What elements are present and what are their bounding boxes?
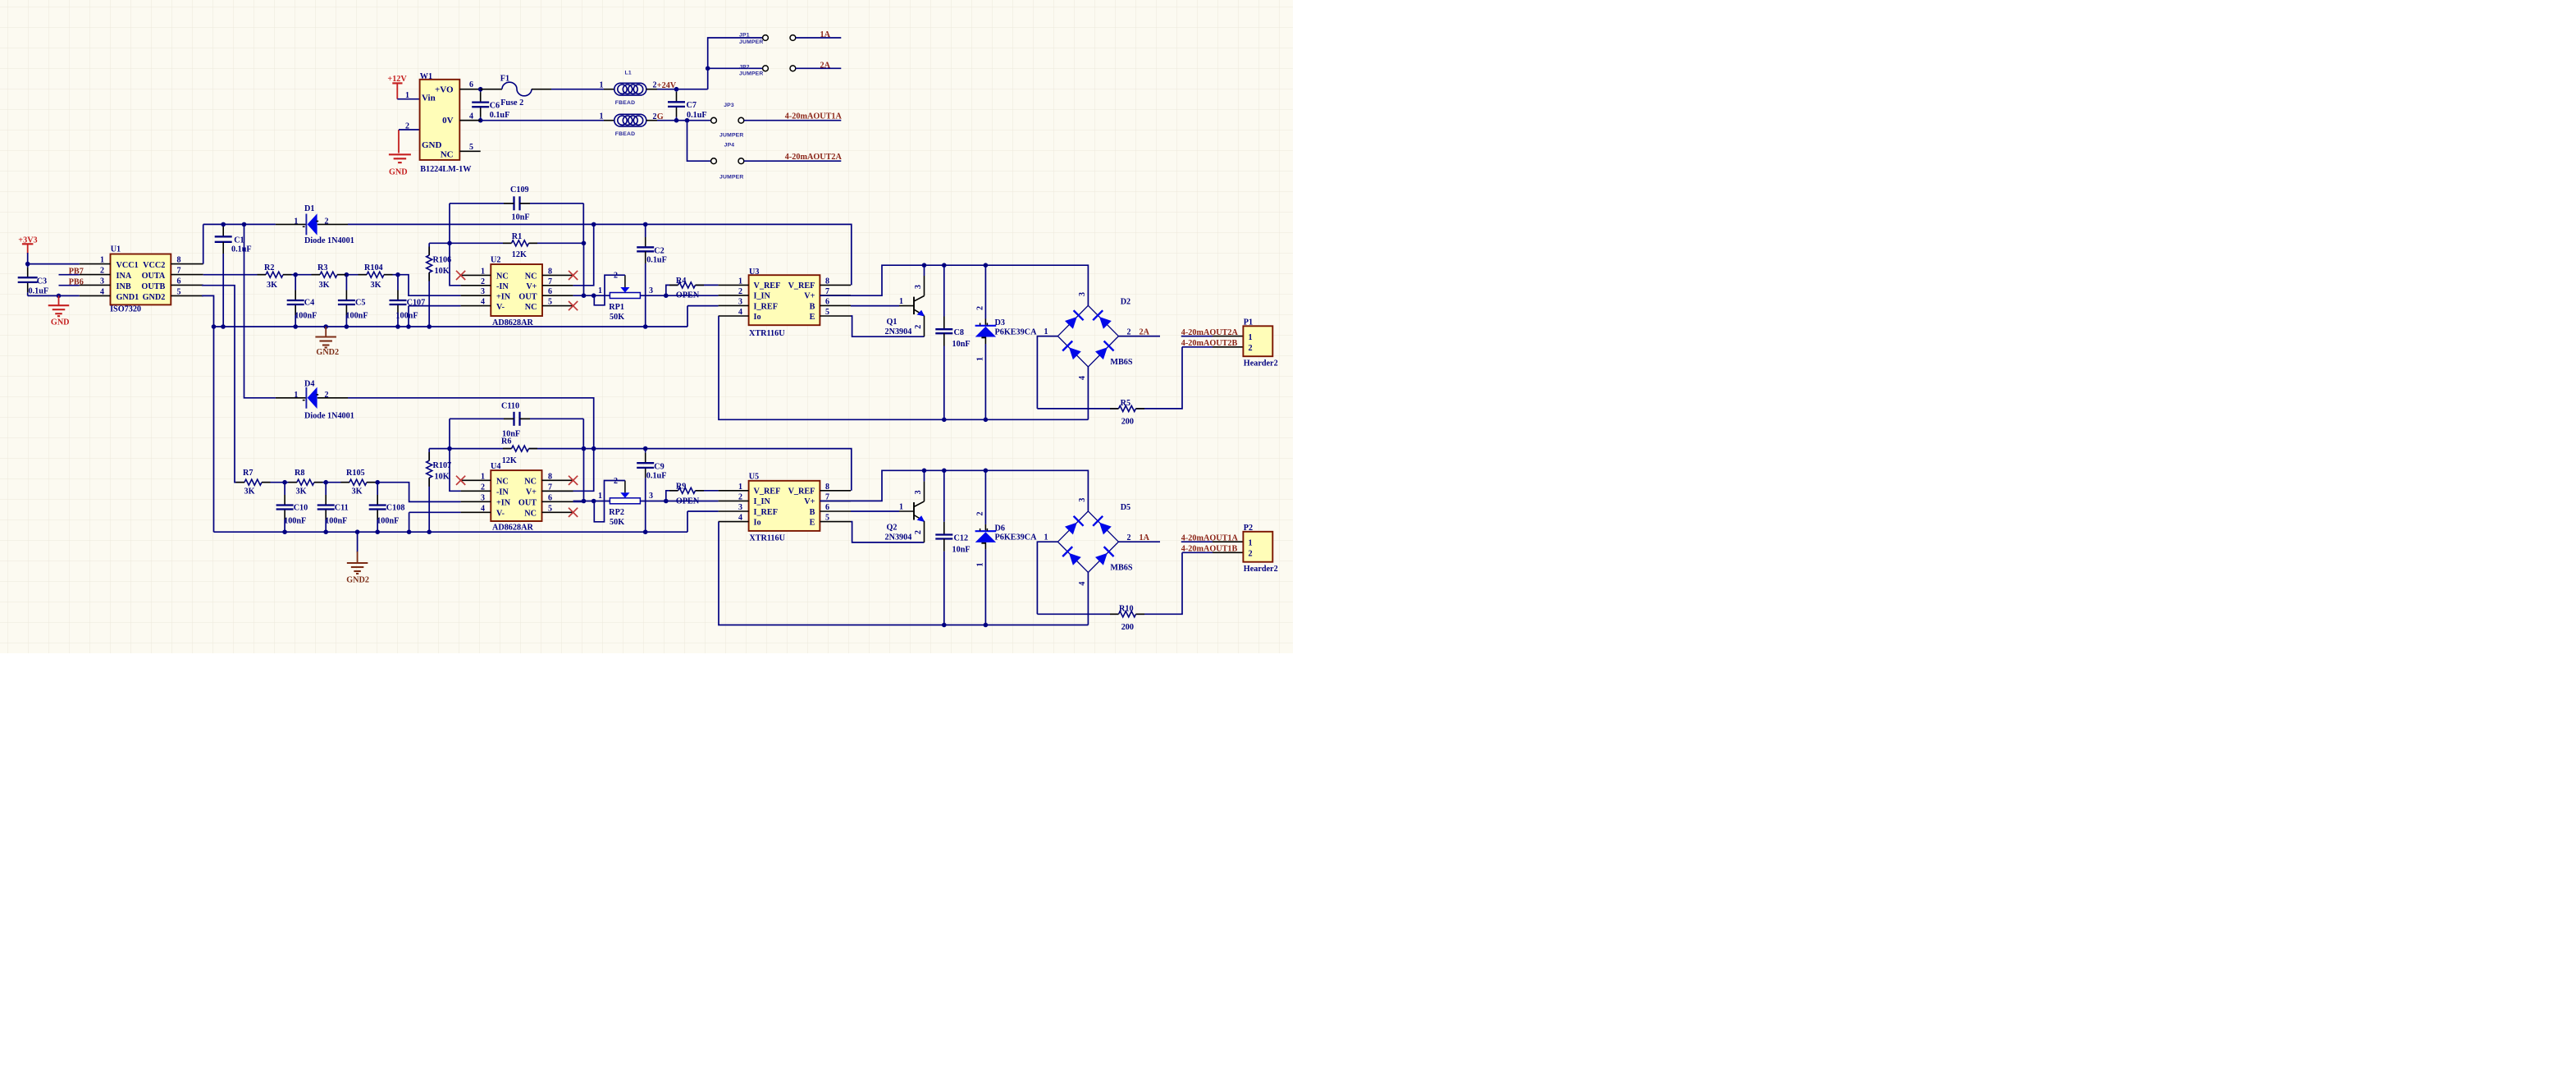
junction C12 [942, 623, 947, 628]
svg-text:10nF: 10nF [952, 340, 971, 349]
junction D6 [984, 469, 989, 474]
svg-text:C5: C5 [355, 298, 365, 307]
svg-text:1: 1 [598, 492, 602, 501]
svg-text:2: 2 [325, 217, 329, 226]
junction C1 [221, 222, 226, 227]
svg-text:V_REF: V_REF [754, 281, 781, 291]
svg-text:1: 1 [294, 217, 298, 226]
svg-text:OUT: OUT [518, 499, 537, 508]
svg-text:4-20mAOUT1B: 4-20mAOUT1B [1181, 544, 1238, 553]
current transmitter U3 XTR116U body [749, 275, 820, 325]
resistor pin leads (black) [258, 274, 267, 276]
junction C108 [375, 480, 380, 485]
svg-text:0V: 0V [442, 116, 454, 126]
svg-text:F1: F1 [500, 74, 509, 83]
U2 pin leads and numbers [461, 274, 491, 276]
svg-text:8: 8 [825, 277, 829, 286]
resistor R8 [297, 479, 314, 485]
svg-text:NC: NC [496, 478, 509, 487]
capacitor C109 10nF [450, 203, 514, 204]
svg-text:P1: P1 [1244, 318, 1253, 327]
potentiometer RP1 50K [610, 293, 640, 299]
svg-text:VCC1: VCC1 [116, 261, 139, 270]
wire OUTB to R7 [202, 286, 244, 483]
bridge rectifier D5 MB6S [1057, 511, 1118, 573]
svg-text:3: 3 [1078, 292, 1087, 296]
svg-text:GND2: GND2 [316, 348, 339, 357]
junction R6 [447, 446, 452, 451]
svg-text:0.1uF: 0.1uF [646, 472, 667, 481]
svg-text:C108: C108 [386, 504, 405, 513]
svg-text:4: 4 [481, 298, 485, 307]
svg-text:GND1: GND1 [116, 293, 139, 302]
svg-text:2: 2 [481, 483, 485, 492]
resistor R107 10K [428, 449, 430, 461]
junction C107 [395, 272, 400, 277]
svg-text:NC: NC [496, 272, 509, 281]
svg-text:100nF: 100nF [295, 312, 317, 321]
wire 4-20mAOUT2A to P1 [1181, 336, 1213, 337]
Q2 emitter pin [924, 521, 925, 542]
svg-text:Hearder2: Hearder2 [1244, 565, 1278, 574]
svg-text:50K: 50K [610, 313, 624, 322]
W1 pin 4 lead [459, 120, 480, 121]
svg-text:3K: 3K [352, 487, 363, 497]
Q1 collector pin [924, 276, 925, 296]
svg-text:I_IN: I_IN [754, 292, 771, 301]
junction [478, 87, 483, 92]
junction C8 [942, 418, 947, 423]
svg-text:R6: R6 [501, 437, 511, 446]
svg-text:D6: D6 [995, 524, 1005, 533]
svg-text:7: 7 [177, 267, 181, 276]
svg-text:3: 3 [738, 297, 742, 306]
svg-text:4-20mAOUT2B: 4-20mAOUT2B [1181, 339, 1238, 348]
junction D3 [984, 418, 989, 423]
svg-text:4-20mAOUT2A: 4-20mAOUT2A [785, 153, 843, 162]
svg-text:5: 5 [825, 308, 829, 317]
jumper JP1 pin 2 [790, 35, 796, 41]
svg-text:GND2: GND2 [346, 576, 369, 585]
svg-text:FBEAD: FBEAD [615, 131, 635, 137]
junction [643, 324, 648, 329]
svg-text:U5: U5 [749, 473, 759, 482]
junction [323, 529, 328, 534]
svg-text:Io: Io [754, 518, 761, 527]
svg-text:D5: D5 [1121, 503, 1130, 512]
svg-text:10nF: 10nF [952, 545, 971, 554]
svg-text:U2: U2 [491, 256, 500, 265]
svg-text:8: 8 [825, 483, 829, 492]
capacitor C107 100nF [397, 275, 399, 291]
wire net 1A [796, 37, 842, 39]
svg-text:B: B [810, 508, 815, 517]
svg-text:C4: C4 [304, 298, 314, 307]
svg-text:INB: INB [116, 282, 131, 291]
svg-text:6: 6 [548, 287, 552, 296]
svg-text:Fuse 2: Fuse 2 [500, 98, 523, 108]
svg-text:Q2: Q2 [887, 524, 897, 533]
wire 4-20mAOUT2B to P1 [1182, 346, 1213, 348]
junction C11 [323, 480, 328, 485]
junction C9 [643, 446, 648, 451]
jumper JP3 pin 1 [711, 117, 717, 123]
jumper JP2 pin 1 [763, 66, 769, 71]
svg-text:-IN: -IN [496, 488, 509, 497]
svg-text:+IN: +IN [496, 293, 511, 302]
capacitor C11 100nF [325, 483, 327, 495]
resistor R4 OPEN wire [666, 285, 678, 295]
svg-text:D3: D3 [995, 318, 1005, 327]
svg-text:E: E [810, 518, 815, 527]
junction [674, 118, 679, 123]
wire 0V to bead [481, 120, 604, 121]
junction Q1 collector [922, 263, 927, 268]
svg-text:XTR116U: XTR116U [749, 534, 785, 543]
svg-text:V_REF: V_REF [754, 487, 781, 497]
wire +24V1 to U4 V+ [348, 398, 594, 492]
wire +24V up to JP1 [708, 38, 763, 89]
inductor L1 FBEAD [614, 83, 646, 95]
transistor Q1 2N3904 [913, 297, 915, 315]
svg-text:100nF: 100nF [325, 517, 347, 526]
svg-text:NC: NC [524, 510, 537, 519]
svg-text:7: 7 [548, 483, 552, 492]
svg-text:AD8628AR: AD8628AR [492, 318, 533, 327]
resistor R105 [349, 479, 367, 485]
capacitor C1 0.1uF [222, 224, 224, 227]
svg-text:Hearder2: Hearder2 [1244, 359, 1278, 368]
wire I_REF to GND2 rail [687, 305, 719, 307]
svg-text:V-: V- [496, 303, 505, 312]
svg-text:2A: 2A [1140, 327, 1150, 336]
svg-text:JP2: JP2 [739, 64, 750, 70]
svg-text:D4: D4 [304, 380, 314, 389]
svg-text:8: 8 [177, 256, 181, 265]
svg-text:V+: V+ [804, 497, 815, 506]
svg-text:1: 1 [600, 80, 604, 89]
Q1 emitter pin [924, 316, 925, 337]
svg-text:+VO: +VO [435, 85, 454, 95]
no-connect U4 pin 8 [569, 476, 578, 485]
capacitor C12 10nF [943, 470, 945, 522]
wire RP1 wiper loop [594, 275, 625, 305]
capacitor C7 0.1uF [676, 89, 678, 92]
svg-text:4: 4 [469, 112, 473, 121]
svg-text:NC: NC [525, 272, 537, 281]
svg-text:3: 3 [481, 493, 485, 502]
wire +24V2 rail to U3 V_REF [348, 224, 852, 285]
svg-text:R8: R8 [295, 469, 304, 478]
resistor R2 [266, 272, 283, 277]
ground GND (input side) [389, 153, 411, 155]
junction [582, 446, 587, 451]
svg-text:JP3: JP3 [724, 103, 734, 108]
svg-text:+IN: +IN [496, 499, 511, 508]
svg-text:1: 1 [294, 391, 298, 400]
junction C12 [942, 469, 947, 474]
resistor R104 [367, 272, 384, 277]
wire 4-20mAOUT1B to P2 [1182, 552, 1213, 553]
junction C2 [643, 222, 648, 227]
svg-text:JP4: JP4 [724, 142, 735, 148]
Q1 base pin [899, 305, 914, 307]
svg-text:2: 2 [1249, 550, 1253, 559]
wire net 4-20mAOUT2A [744, 160, 842, 162]
U3 pin leads and numbers [719, 284, 749, 286]
junction wiper [591, 293, 596, 298]
svg-text:4: 4 [1078, 376, 1087, 380]
svg-text:3: 3 [649, 492, 653, 501]
P1 pin 2 lead [1213, 346, 1243, 348]
svg-text:RP2: RP2 [609, 508, 624, 517]
svg-text:3: 3 [738, 503, 742, 512]
svg-text:C7: C7 [687, 101, 697, 110]
svg-text:4: 4 [738, 514, 742, 523]
svg-text:1: 1 [1249, 539, 1253, 548]
resistor R3 [320, 272, 337, 277]
wire net 2A [796, 67, 842, 69]
svg-text:3: 3 [914, 490, 923, 494]
junction Q2 collector [922, 469, 927, 474]
svg-text:R7: R7 [243, 469, 253, 478]
svg-text:1: 1 [598, 286, 602, 295]
no-connect U2 pin 8 [569, 271, 578, 280]
wire fuse to L1 [551, 89, 604, 90]
wire V+ to loop supply rail lower [820, 470, 1088, 510]
svg-text:1: 1 [976, 357, 985, 361]
junction [427, 324, 432, 329]
svg-text:200: 200 [1121, 418, 1134, 427]
svg-text:1: 1 [405, 91, 409, 100]
svg-text:V-: V- [496, 510, 505, 519]
junction [674, 87, 679, 92]
svg-text:Q1: Q1 [887, 318, 897, 327]
svg-text:JUMPER: JUMPER [719, 132, 744, 138]
jumper JP3 pin 2 [738, 117, 744, 123]
junction [212, 324, 217, 329]
P2 pin 1 lead [1213, 541, 1243, 542]
wire V- to GND2 rail [408, 306, 409, 327]
svg-text:V+: V+ [526, 488, 537, 497]
svg-text:V+: V+ [804, 292, 815, 301]
wire RP2 wiper loop [594, 481, 625, 522]
wire Io return rail [719, 316, 1088, 419]
junction [282, 529, 287, 534]
junction R1 [447, 241, 452, 246]
W1 pin 5 lead (NC) [459, 150, 480, 152]
Q2 collector pin [924, 481, 925, 501]
svg-text:P6KE39CA: P6KE39CA [995, 327, 1038, 336]
svg-text:2: 2 [976, 512, 985, 516]
svg-text:2: 2 [653, 112, 657, 121]
capacitor C5 100nF [345, 275, 347, 291]
svg-text:3K: 3K [371, 281, 381, 290]
current transmitter U5 XTR116U body [749, 481, 820, 531]
junction R9 [664, 499, 669, 504]
D4 pin 2 lead [317, 397, 348, 399]
svg-text:3: 3 [481, 287, 485, 296]
wire VCC2 to D4 [244, 224, 276, 397]
svg-text:W1: W1 [420, 72, 432, 81]
svg-text:1: 1 [738, 483, 742, 492]
svg-text:1: 1 [899, 297, 903, 306]
U1 pin leads and numbers [80, 263, 111, 265]
TVS diode D6 P6KE39CA [984, 470, 986, 524]
svg-text:Diode 1N4001: Diode 1N4001 [304, 236, 354, 245]
svg-text:R3: R3 [317, 263, 327, 272]
wire to U3 I_IN [640, 295, 718, 296]
svg-text:JUMPER: JUMPER [719, 175, 744, 181]
svg-text:OUTA: OUTA [142, 272, 166, 281]
wire to U5 I_IN [640, 501, 718, 502]
junction [221, 324, 226, 329]
junction C10 [282, 480, 287, 485]
svg-text:MB6S: MB6S [1110, 358, 1133, 367]
wire to JP2 [708, 67, 763, 69]
wire Io return rail lower [719, 522, 1088, 625]
svg-text:4-20mAOUT1A: 4-20mAOUT1A [1181, 534, 1239, 543]
wire OUT to RP2 [573, 501, 610, 502]
svg-text:P6KE39CA: P6KE39CA [995, 533, 1038, 542]
wire C110 to -IN [450, 419, 461, 491]
svg-text:10K: 10K [435, 267, 450, 276]
svg-text:2A: 2A [820, 61, 831, 70]
svg-text:1: 1 [738, 277, 742, 286]
wire R106 top [429, 242, 450, 244]
wire OUT [573, 501, 584, 502]
P2 pin 2 lead [1213, 552, 1243, 553]
wire top rail to D1 [203, 223, 276, 225]
svg-text:7: 7 [548, 277, 552, 286]
svg-text:INA: INA [116, 272, 132, 281]
jumper JP4 pin 1 [711, 158, 717, 164]
wire B to Q2 base [851, 510, 899, 512]
svg-text:1: 1 [100, 256, 104, 265]
resistor R9 OPEN wire [666, 491, 678, 501]
svg-text:0.1uF: 0.1uF [231, 245, 252, 254]
junction C5 [345, 272, 349, 277]
wire +3V3 [27, 253, 29, 264]
svg-text:C12: C12 [954, 533, 969, 542]
svg-text:2: 2 [481, 277, 485, 286]
resistor R7 [244, 479, 262, 485]
junction [582, 293, 587, 298]
svg-text:I_REF: I_REF [754, 508, 778, 517]
svg-text:2: 2 [1127, 327, 1131, 336]
svg-text:1: 1 [1044, 533, 1048, 542]
svg-text:2: 2 [405, 122, 409, 131]
wire VCC2 riser [203, 224, 204, 263]
svg-text:0.1uF: 0.1uF [646, 256, 667, 265]
wire U4 V- stub [409, 511, 461, 513]
wire E to Q2 emitter [851, 522, 925, 542]
wire GND2 rail [214, 326, 688, 327]
svg-text:200: 200 [1121, 623, 1134, 632]
wire GND2 rail lower [214, 531, 688, 533]
wire C109 right drop [582, 204, 584, 243]
junction [427, 529, 432, 534]
svg-text:XTR116U: XTR116U [749, 329, 785, 338]
svg-text:AD8628AR: AD8628AR [492, 524, 533, 533]
wire feedback to OUT [583, 243, 585, 295]
svg-text:R1: R1 [512, 232, 522, 241]
wire PB7 [59, 274, 80, 276]
svg-text:5: 5 [825, 514, 829, 523]
svg-text:100nF: 100nF [395, 312, 418, 321]
wire V+ to +24V2 rail [573, 224, 594, 285]
svg-text:V_REF: V_REF [788, 487, 815, 497]
junction [407, 529, 412, 534]
svg-text:0.1uF: 0.1uF [29, 287, 49, 296]
no-connect U4 pin 1 [456, 476, 465, 485]
capacitor C3 0.1uF [27, 264, 29, 268]
junction C8 [942, 263, 947, 268]
D4 pin 1 lead [276, 397, 306, 399]
op-amp U2 AD8628AR body [491, 264, 542, 316]
svg-text:P2: P2 [1244, 524, 1253, 533]
wire to JP4 [687, 121, 711, 162]
junction [375, 529, 380, 534]
junction [395, 324, 400, 329]
svg-text:L1: L1 [625, 71, 632, 76]
svg-text:V_REF: V_REF [788, 281, 815, 291]
svg-text:R2: R2 [264, 263, 274, 272]
svg-text:1: 1 [1044, 327, 1048, 336]
svg-text:1A: 1A [1140, 533, 1150, 542]
svg-text:C2: C2 [654, 247, 664, 256]
svg-text:C109: C109 [510, 185, 529, 195]
junction JP2 tap [706, 66, 710, 71]
svg-text:4: 4 [1078, 582, 1087, 586]
wire U1 GND2 drop [202, 295, 214, 532]
svg-text:8: 8 [548, 267, 552, 276]
svg-text:1: 1 [899, 502, 903, 511]
svg-text:JUMPER: JUMPER [739, 39, 764, 45]
junction [57, 294, 62, 299]
no-connect U4 pin 5 [569, 508, 578, 517]
svg-text:C1: C1 [234, 236, 244, 245]
junction JP4 tap [685, 118, 690, 123]
svg-text:R10: R10 [1119, 604, 1134, 613]
junction [582, 241, 587, 246]
junction [582, 499, 587, 504]
W1 pin 6 lead [459, 89, 480, 90]
svg-text:2: 2 [738, 287, 742, 296]
svg-text:2: 2 [738, 492, 742, 501]
svg-text:12K: 12K [512, 250, 527, 259]
svg-text:Vin: Vin [422, 94, 436, 103]
svg-text:3: 3 [914, 285, 923, 289]
junction wiper [591, 499, 596, 504]
capacitor C6 0.1uF [480, 89, 482, 92]
resistor R5 200 wire [1037, 408, 1118, 410]
wire V- to GND2 rail [409, 512, 410, 532]
wire D2 pin 2 net 2A [1118, 336, 1160, 337]
svg-text:3: 3 [649, 286, 653, 295]
svg-text:1: 1 [976, 563, 985, 567]
ground GND2 [325, 327, 327, 337]
wire B to Q1 base [851, 305, 899, 307]
L1 pin 1 lead [604, 89, 614, 90]
jumper JP2 pin 2 [790, 66, 796, 71]
wire I_REF to GND2 rail [687, 510, 719, 512]
resistor R1 12K wire [450, 242, 512, 244]
bead pin 2 lead [646, 120, 657, 121]
svg-text:6: 6 [469, 80, 473, 89]
wire to U2 +IN [384, 275, 461, 296]
wire to U4 +IN [367, 483, 461, 502]
